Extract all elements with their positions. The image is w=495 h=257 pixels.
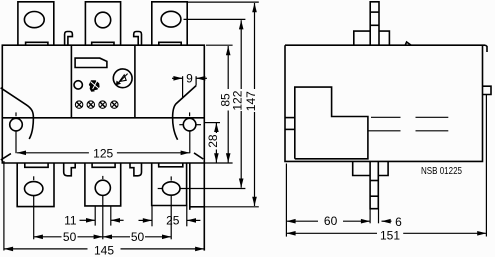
svg-text:6: 6 — [395, 215, 402, 229]
top tab 1 — [18, 2, 54, 45]
extension line below left hole — [15, 131, 17, 153]
centerline ticks tab3 — [170, 176, 172, 180]
flange line — [2, 117, 204, 119]
svg-text:50: 50 — [131, 230, 145, 244]
centerline tick tab1 — [33, 176, 35, 180]
dim 11 — [64, 214, 124, 228]
9-dim extension stubs — [182, 76, 184, 97]
svg-text:11: 11 — [64, 214, 77, 228]
setting dial — [113, 69, 132, 88]
dim 28 — [204, 123, 220, 163]
centerline tick above left hole — [15, 112, 17, 116]
dim 122 — [180, 19, 245, 188]
svg-text:122: 122 — [231, 90, 245, 110]
dim 125 — [17, 147, 190, 161]
reset button — [74, 81, 82, 89]
dim 145 — [4, 161, 204, 257]
svg-text:25: 25 — [166, 214, 180, 228]
11-dim extension lines — [94, 206, 96, 226]
dim 25 — [139, 214, 201, 228]
25-dim extension lines — [151, 206, 153, 227]
dim 9 — [172, 72, 207, 86]
svg-text:145: 145 — [94, 243, 114, 257]
svg-text:28: 28 — [206, 134, 220, 148]
dim 85 — [204, 45, 232, 163]
bottom tab 3 — [152, 163, 187, 206]
extension line below tab3 — [170, 195, 172, 239]
svg-text:9: 9 — [186, 72, 193, 86]
dim 60 / 6 — [286, 164, 402, 237]
bottom hook 2 — [130, 163, 142, 176]
svg-text:147: 147 — [244, 91, 258, 111]
control panel verticals — [70, 45, 72, 118]
svg-text:151: 151 — [380, 228, 400, 242]
extension line below right hole — [189, 131, 191, 153]
inner face outline — [295, 87, 368, 159]
dim 151 — [286, 95, 486, 242]
svg-text:NSB 01225: NSB 01225 — [421, 165, 462, 177]
bottom hook 1 — [64, 163, 75, 176]
body outline — [285, 45, 486, 161]
top clip triangle — [405, 42, 411, 45]
centerline ticks right hole — [189, 112, 191, 116]
dim 147 — [187, 2, 259, 207]
dim 50 right — [103, 230, 171, 244]
right contour feature — [173, 86, 197, 140]
centerline tick tab2 — [102, 176, 104, 179]
svg-text:50: 50 — [63, 230, 77, 244]
right bracket — [189, 163, 191, 210]
svg-text:60: 60 — [324, 214, 338, 228]
bottom tab 2 — [85, 163, 121, 206]
top tab 2 — [85, 2, 120, 45]
control panel: display window — [75, 58, 107, 67]
trip indicator symbol — [89, 80, 100, 91]
extension line below tab1 — [33, 196, 35, 240]
dim 50 left — [34, 230, 103, 244]
top hook 2 — [134, 32, 142, 46]
terminal stack top — [354, 2, 390, 45]
terminal stack bottom — [353, 161, 388, 208]
extension line below tab2 — [102, 196, 104, 240]
bottom tab 1 — [17, 163, 54, 207]
hidden dashed lines — [368, 117, 448, 131]
screw terminals row — [75, 101, 118, 108]
mounting hole right — [183, 118, 196, 131]
mounting hole left — [10, 118, 23, 131]
top right lug — [486, 45, 488, 52]
left contour feature — [1, 88, 34, 139]
svg-text:125: 125 — [93, 147, 113, 161]
body outline — [2, 45, 204, 163]
top hook 1 — [65, 32, 73, 46]
right side bump — [483, 86, 492, 94]
chamfer diagonals — [1, 154, 11, 160]
left strip lines — [285, 117, 295, 119]
top tab 3 — [152, 2, 187, 45]
